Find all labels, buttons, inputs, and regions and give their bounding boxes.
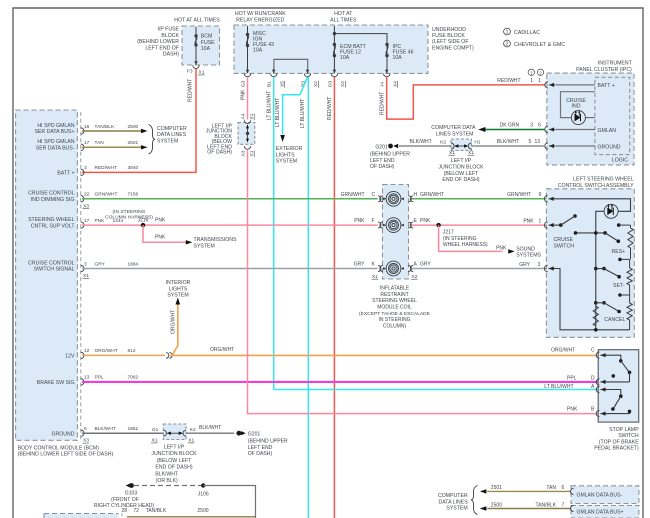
- switch RES+ arm: [574, 231, 620, 243]
- svg-text:SYSTEM: SYSTEM: [167, 293, 188, 299]
- svg-text:10A: 10A: [253, 48, 263, 54]
- svg-text:RED/WHT: RED/WHT: [327, 97, 333, 120]
- svg-text:GMLAN DATA BUS+: GMLAN DATA BUS+: [577, 510, 624, 516]
- svg-text:3: 3: [530, 122, 533, 128]
- svg-text:ALL TIMES: ALL TIMES: [330, 17, 357, 23]
- svg-text:G201: G201: [248, 431, 261, 437]
- svg-text:CANCEL: CANCEL: [604, 317, 625, 323]
- coil K-A row connectors: [354, 262, 432, 272]
- svg-text:(TOP OF BRAKE: (TOP OF BRAKE: [599, 439, 639, 445]
- svg-text:TRANSMISSIONS: TRANSMISSIONS: [194, 237, 237, 243]
- BCM pin 3 GRY 1884: [28, 260, 378, 279]
- connector J4/X4: [380, 70, 399, 88]
- svg-text:7: 7: [562, 502, 565, 508]
- junction J216 on PNK wire: [105, 209, 166, 227]
- svg-text:TAN/BLK: TAN/BLK: [536, 502, 557, 508]
- svg-text:PNK: PNK: [496, 245, 507, 251]
- arrows and brace to COMPUTER DATA LINES SYSTEM: [141, 125, 187, 155]
- svg-text:13: 13: [84, 375, 90, 381]
- svg-text:10A: 10A: [393, 55, 403, 61]
- svg-text:3840: 3840: [128, 165, 139, 171]
- connector B1/X5: [267, 70, 286, 88]
- BCM box: [16, 110, 78, 440]
- resistor RES+: [612, 223, 634, 259]
- svg-text:PNK: PNK: [95, 218, 106, 224]
- svg-text:IND DIMMING SIG: IND DIMMING SIG: [31, 197, 75, 203]
- svg-text:LOGIC: LOGIC: [612, 158, 628, 164]
- svg-text:C: C: [591, 348, 595, 354]
- bottom pin 28/72 TAN/BLK 2500: [122, 508, 256, 517]
- switch assembly pin 3: [544, 265, 555, 271]
- svg-text:J4: J4: [380, 82, 386, 87]
- svg-text:LEFT END: LEFT END: [248, 445, 273, 451]
- svg-text:SER DATA BUS-: SER DATA BUS-: [36, 146, 75, 152]
- svg-text:F3: F3: [187, 69, 193, 75]
- svg-text:PNK: PNK: [155, 217, 166, 223]
- header HOT AT ALL TIMES (I/P fuse block): [174, 17, 220, 23]
- svg-text:2501: 2501: [491, 485, 502, 491]
- svg-text:BATT +: BATT +: [57, 171, 74, 177]
- svg-text:STOP LAMP: STOP LAMP: [609, 427, 639, 433]
- svg-text:DATA LINES: DATA LINES: [157, 132, 187, 138]
- svg-text:D3: D3: [327, 81, 333, 87]
- wire PPL label near stop lamp pin D: [567, 375, 595, 381]
- svg-text:X4: X4: [392, 81, 398, 87]
- stop lamp switch pin C: [596, 352, 607, 358]
- fuse IPC FUSE 46 10A: [385, 34, 413, 73]
- wire LT BLU/WHT from B1 down to stop lamp row: [266, 77, 273, 390]
- svg-text:(FRONT OF: (FRONT OF: [111, 497, 139, 503]
- left steering wheel control switch assembly box: [546, 177, 634, 338]
- svg-text:BCM: BCM: [201, 34, 213, 40]
- svg-text:GRY: GRY: [354, 262, 365, 268]
- wire bus feeding B1 and P3 inside underhood box: [274, 59, 308, 73]
- stop lamp switch pin D: [596, 379, 607, 385]
- cruise on/off switch: [554, 214, 577, 249]
- junction block (left I/P) K2/H1: [440, 139, 481, 156]
- svg-text:LIGHTS: LIGHTS: [276, 152, 295, 158]
- BCM pin 5 BLK/WHT 1851: [51, 426, 163, 444]
- svg-text:CADILLAC: CADILLAC: [514, 30, 540, 36]
- svg-text:2: 2: [539, 70, 542, 76]
- junction J106: [198, 483, 209, 497]
- brace and label COMPUTER DATA LINES SYSTEM (bottom): [438, 486, 477, 515]
- svg-text:INSTRUMENT: INSTRUMENT: [598, 61, 633, 67]
- svg-text:DATA LINES: DATA LINES: [438, 499, 468, 505]
- svg-text:K2: K2: [440, 140, 446, 146]
- BCM pin 13 PPL 7062: [37, 375, 598, 386]
- wire PNK coil to switch assembly: [412, 218, 547, 225]
- svg-text:1: 1: [538, 78, 541, 84]
- svg-text:3: 3: [84, 165, 87, 171]
- svg-text:GROUND: GROUND: [598, 144, 621, 150]
- LED cruise switch indicator: [604, 204, 618, 218]
- GMLAN DATA BUS- box: [571, 486, 639, 504]
- svg-text:FUSE: FUSE: [201, 40, 215, 46]
- svg-text:LEFT I/P: LEFT I/P: [164, 445, 185, 451]
- switch SET- arm: [594, 267, 621, 279]
- svg-text:GMLAN: GMLAN: [598, 128, 617, 134]
- svg-text:B1: B1: [267, 81, 273, 87]
- underhood fuse block box: [234, 25, 474, 73]
- svg-text:COMPUTER: COMPUTER: [438, 493, 468, 499]
- svg-text:(EXCEPT TAHOE & ESCALADE: (EXCEPT TAHOE & ESCALADE: [359, 311, 431, 317]
- svg-text:BODY CONTROL MODULE (BCM): BODY CONTROL MODULE (BCM): [18, 445, 100, 451]
- svg-text:COMPUTER DATA: COMPUTER DATA: [431, 125, 476, 131]
- connector G3 below underhood box: [241, 70, 251, 87]
- svg-text:17: 17: [84, 218, 90, 224]
- wire LT BLU/WHT to stop lamp pin A: [274, 384, 599, 390]
- svg-text:(OR BLK): (OR BLK): [156, 478, 178, 484]
- svg-text:2500: 2500: [197, 508, 208, 514]
- stop lamp switch upper contact set: [605, 355, 631, 382]
- IPC pin GMLAN: [500, 122, 617, 134]
- BCM pin 16 TAN/BLK 2500: [34, 123, 141, 135]
- wire LT BLU/WHT branch to exterior lights: [275, 77, 307, 135]
- svg-text:2500: 2500: [128, 124, 139, 130]
- BCM pin 22 GRN/WHT 7156: [28, 191, 378, 210]
- I/P fuse block box: [137, 26, 219, 65]
- svg-text:ENGINE COMPT): ENGINE COMPT): [432, 45, 474, 51]
- svg-text:LEFT END OF: LEFT END OF: [145, 45, 179, 51]
- BCM pin 17 TAN 2501: [36, 139, 141, 151]
- svg-text:GRY: GRY: [95, 261, 106, 267]
- svg-text:SYSTEM: SYSTEM: [446, 506, 467, 512]
- svg-text:X1: X1: [372, 274, 378, 280]
- svg-text:RESTRAINT: RESTRAINT: [380, 292, 408, 298]
- svg-text:LT BLU/WHT: LT BLU/WHT: [266, 91, 272, 120]
- svg-text:GRY: GRY: [519, 262, 530, 268]
- svg-text:CRUISE CONTROL: CRUISE CONTROL: [28, 191, 75, 197]
- ground G103: [94, 483, 154, 509]
- svg-text:PNK: PNK: [420, 218, 431, 224]
- svg-text:BLK/WHT: BLK/WHT: [95, 426, 116, 432]
- svg-text:STEERING WHEEL: STEERING WHEEL: [28, 217, 75, 223]
- wire GRY coil to switch assembly: [412, 262, 547, 269]
- LED cruise indicator: [571, 110, 585, 124]
- svg-text:1: 1: [506, 30, 509, 36]
- stop lamp switch pin B: [596, 410, 607, 416]
- svg-text:END OF DASH): END OF DASH): [442, 177, 479, 183]
- svg-text:HOT AT: HOT AT: [334, 11, 353, 17]
- svg-text:FUSE BLOCK: FUSE BLOCK: [432, 33, 465, 39]
- svg-text:RES+: RES+: [612, 249, 626, 255]
- switch assembly pin 1: [544, 222, 555, 228]
- svg-text:13: 13: [535, 139, 541, 145]
- svg-text:J106: J106: [198, 491, 209, 497]
- svg-text:GRN/WHT: GRN/WHT: [420, 192, 444, 198]
- svg-text:CRUISE: CRUISE: [554, 237, 574, 243]
- svg-text:SET-: SET-: [613, 283, 625, 289]
- svg-text:IN STEERING: IN STEERING: [379, 317, 411, 323]
- BCM pin 17 PNK 1444: [28, 217, 378, 229]
- svg-text:SYSTEMS: SYSTEMS: [516, 253, 541, 259]
- svg-text:TAN/BLK: TAN/BLK: [95, 124, 115, 130]
- svg-text:TAN: TAN: [95, 140, 105, 146]
- svg-text:INFLATABLE: INFLATABLE: [380, 286, 410, 292]
- wire PNK branch to transmissions system: [143, 225, 237, 249]
- svg-text:2501: 2501: [128, 140, 139, 146]
- svg-text:ORG/WHT: ORG/WHT: [95, 348, 118, 354]
- wire LT BLU/WHT from P3 down off page: [300, 77, 308, 518]
- inflatable restraint steering wheel module coil box: [359, 185, 431, 330]
- svg-text:G3: G3: [241, 80, 247, 87]
- wire ORG/WHT branch to interior lights: [170, 305, 177, 356]
- fuse BCM FUSE 10A: [194, 27, 215, 64]
- coil C-H row connectors: [341, 192, 444, 202]
- svg-text:OF DASH): OF DASH): [248, 451, 273, 457]
- svg-text:SOUND: SOUND: [516, 246, 535, 252]
- svg-text:IND: IND: [572, 103, 581, 109]
- svg-text:F: F: [372, 218, 375, 224]
- svg-text:INTERIOR: INTERIOR: [166, 280, 191, 286]
- IPC logic box: [595, 77, 630, 163]
- ground G201 (lower): [236, 431, 288, 457]
- GMLAN DATA BUS+ box: [571, 506, 639, 518]
- wire PNK branch to sound systems: [439, 225, 542, 259]
- svg-text:HOT W/ RUN/CRANK: HOT W/ RUN/CRANK: [235, 11, 286, 17]
- svg-text:X2: X2: [412, 274, 418, 280]
- junction block (left I/P) A4/A3: [238, 113, 255, 157]
- svg-text:CONTROL SWITCH ASSEMBLY: CONTROL SWITCH ASSEMBLY: [558, 183, 634, 189]
- svg-text:CNTRL SUP VOLT: CNTRL SUP VOLT: [31, 223, 76, 229]
- svg-text:COLUMN HARNESS): COLUMN HARNESS): [105, 214, 153, 220]
- svg-text:1884: 1884: [128, 261, 139, 267]
- connector P3/X2: [301, 70, 320, 88]
- wire GRN/WHT coil to switch assembly: [412, 192, 547, 199]
- stop lamp switch pin A: [596, 386, 607, 392]
- coil connector labels X1/X2: [372, 274, 418, 280]
- stop lamp switch box: [594, 350, 639, 452]
- connector D3/X2: [327, 70, 346, 88]
- coil element C/H: [383, 191, 404, 206]
- svg-text:HI SPD GMLAN: HI SPD GMLAN: [37, 123, 74, 129]
- svg-text:GRN/WHT: GRN/WHT: [95, 192, 118, 198]
- svg-text:DK GRN: DK GRN: [500, 122, 520, 128]
- svg-text:PPL: PPL: [567, 375, 577, 381]
- svg-text:7062: 7062: [128, 375, 139, 381]
- svg-text:D: D: [591, 375, 595, 381]
- resistor CANCEL chain: [604, 293, 632, 330]
- svg-text:22: 22: [84, 192, 90, 198]
- svg-text:CRUISE CONTROL: CRUISE CONTROL: [28, 260, 75, 266]
- coil element F/E: [383, 218, 404, 233]
- wire ORG/WHT to stop lamp switch pin C: [170, 347, 598, 355]
- svg-text:G201: G201: [375, 144, 388, 150]
- svg-text:LINES SYSTEM: LINES SYSTEM: [436, 131, 474, 137]
- svg-text:BATT +: BATT +: [598, 83, 615, 89]
- junction block K2/H1 label: [438, 158, 484, 183]
- svg-text:H1: H1: [474, 140, 480, 146]
- svg-text:SYSTEM: SYSTEM: [194, 244, 215, 250]
- resistor on common leg: [593, 306, 598, 332]
- switch assembly internal wiring: [554, 199, 631, 330]
- junction block G1/K2 label: [151, 445, 197, 485]
- resistor SET-: [613, 258, 632, 295]
- svg-text:SER DATA BUS+: SER DATA BUS+: [34, 129, 74, 135]
- svg-text:RED/WHT: RED/WHT: [379, 92, 385, 115]
- svg-text:GRY: GRY: [420, 262, 431, 268]
- svg-text:812: 812: [128, 348, 136, 354]
- svg-text:6: 6: [538, 122, 541, 128]
- svg-text:12: 12: [84, 348, 90, 354]
- svg-text:9: 9: [539, 192, 542, 198]
- svg-text:5: 5: [84, 426, 87, 432]
- svg-text:1: 1: [530, 70, 533, 76]
- wire PNK to stop lamp pin B: [248, 150, 599, 413]
- svg-text:LEFT I/P: LEFT I/P: [451, 158, 472, 164]
- svg-text:I/P FUSE: I/P FUSE: [157, 27, 179, 33]
- switch assembly pin 9: [544, 196, 555, 202]
- svg-text:UNDERHOOD: UNDERHOOD: [432, 27, 466, 33]
- svg-text:EXTERIOR: EXTERIOR: [276, 146, 303, 152]
- wire BLK/WHT junction block to G201 (lower): [186, 425, 234, 433]
- svg-text:2: 2: [506, 42, 509, 48]
- svg-text:1: 1: [539, 218, 542, 224]
- svg-text:SYSTEM: SYSTEM: [157, 138, 178, 144]
- svg-text:BLK/WHT: BLK/WHT: [199, 425, 221, 431]
- connector F3/X1 below I/P fuse block: [187, 61, 205, 75]
- legend circled 1 CADILLAC: [504, 28, 540, 36]
- svg-text:PANEL CLUSTER (IPC): PANEL CLUSTER (IPC): [576, 67, 632, 73]
- svg-text:HI SPD GMLAN: HI SPD GMLAN: [37, 139, 74, 145]
- svg-text:(BEHIND LOWER: (BEHIND LOWER: [137, 39, 179, 45]
- svg-text:5: 5: [529, 139, 532, 145]
- svg-text:10A: 10A: [201, 46, 211, 52]
- svg-text:TAN/BLK: TAN/BLK: [146, 508, 167, 514]
- svg-text:END OF DASH): END OF DASH): [155, 464, 192, 470]
- svg-text:COMPUTER: COMPUTER: [157, 126, 187, 132]
- svg-text:OF DASH): OF DASH): [370, 164, 395, 170]
- svg-text:RED/WHT: RED/WHT: [95, 165, 117, 171]
- arrow to EXTERIOR LIGHTS SYSTEM: [276, 135, 303, 165]
- wire bus feeding ECM BATT and IPC fuses: [333, 26, 387, 40]
- svg-text:LT BLU/WHT: LT BLU/WHT: [300, 99, 306, 128]
- svg-text:SYSTEM: SYSTEM: [276, 159, 297, 165]
- svg-text:PNK: PNK: [155, 235, 166, 241]
- header HOT AT ALL TIMES (underhood): [330, 11, 357, 23]
- svg-text:(BELOW LEFT: (BELOW LEFT: [444, 171, 479, 177]
- IPC pin GROUND: [497, 139, 621, 150]
- svg-text:H: H: [414, 192, 418, 198]
- svg-text:WHEEL HARNESS): WHEEL HARNESS): [443, 242, 488, 248]
- svg-text:10A: 10A: [340, 55, 350, 61]
- svg-text:BLK/WHT: BLK/WHT: [410, 139, 432, 145]
- stop lamp switch lower contact set: [605, 390, 631, 414]
- wire DK GRN to computer data lines system: [431, 125, 545, 137]
- svg-text:A4: A4: [241, 113, 247, 119]
- bottom module box (partial): [44, 514, 122, 518]
- svg-text:PPL: PPL: [95, 375, 104, 381]
- svg-text:LEFT STEERING WHEEL: LEFT STEERING WHEEL: [573, 177, 634, 183]
- svg-text:ORG/WHT: ORG/WHT: [551, 348, 575, 354]
- svg-text:3: 3: [538, 262, 541, 268]
- svg-text:STEERING WHEEL: STEERING WHEEL: [372, 298, 417, 304]
- svg-text:RED/WHT: RED/WHT: [497, 78, 520, 84]
- svg-text:(LEFT SIDE OF: (LEFT SIDE OF: [432, 39, 469, 45]
- svg-text:PNK: PNK: [354, 218, 365, 224]
- wire RED/WHT from F3 to BCM BATT+: [82, 69, 196, 173]
- svg-text:(BEHIND UPPER: (BEHIND UPPER: [248, 439, 288, 445]
- svg-text:SWITCH SIGNAL: SWITCH SIGNAL: [34, 267, 75, 273]
- svg-text:28: 28: [122, 508, 128, 514]
- svg-text:GROUND: GROUND: [51, 431, 74, 437]
- svg-text:RED/WHT: RED/WHT: [188, 79, 194, 102]
- svg-text:HOT AT ALL TIMES: HOT AT ALL TIMES: [174, 17, 220, 23]
- fuse ECM BATT FUSE 12 10A: [333, 34, 367, 73]
- svg-text:BLOCK: BLOCK: [161, 33, 179, 39]
- wire BLK/WHT (OR BLK) dashed G103 to J106: [134, 485, 203, 487]
- svg-text:GRN/WHT: GRN/WHT: [341, 192, 365, 198]
- fuse MISC IGN FUSE 43 10A: [246, 26, 274, 73]
- wire TAN/BLK 2500 GMLAN data bus+: [480, 502, 571, 510]
- svg-text:6: 6: [562, 485, 565, 491]
- svg-text:GMLAN DATA BUS-: GMLAN DATA BUS-: [577, 492, 623, 498]
- svg-text:PNK: PNK: [241, 89, 247, 100]
- svg-text:LEFT END: LEFT END: [370, 158, 395, 164]
- svg-text:17: 17: [84, 140, 90, 146]
- svg-text:DASH): DASH): [163, 52, 179, 58]
- BCM label: [18, 445, 114, 457]
- svg-text:2500: 2500: [491, 502, 502, 508]
- IPC cruise indicator loop wire: [561, 92, 595, 118]
- coil element K/A: [383, 261, 404, 276]
- svg-text:3: 3: [84, 261, 87, 267]
- svg-text:MODULE COIL: MODULE COIL: [377, 305, 412, 311]
- wire BLK/WHT junction block to G201: [399, 139, 451, 146]
- svg-text:SWITCH: SWITCH: [554, 243, 575, 249]
- svg-text:BLK/WHT: BLK/WHT: [497, 139, 519, 145]
- wire RED/WHT from J4 to IPC BATT+: [379, 77, 545, 119]
- svg-text:JUNCTION BLOCK: JUNCTION BLOCK: [438, 165, 484, 171]
- header HOT W/ RUN/CRANK RELAY ENERGIZED: [235, 11, 286, 23]
- svg-text:72: 72: [133, 508, 139, 514]
- coil F-E row connectors: [354, 218, 431, 228]
- svg-text:SWITCH: SWITCH: [618, 433, 639, 439]
- junction block G1/K2: [151, 424, 196, 444]
- inline connector on ORG/WHT wire: [166, 353, 172, 359]
- svg-text:G103: G103: [125, 491, 138, 497]
- wire TAN 2501 GMLAN data bus-: [480, 485, 571, 493]
- svg-text:LIGHTS: LIGHTS: [169, 286, 188, 292]
- svg-text:JUNCTION BLOCK: JUNCTION BLOCK: [151, 451, 197, 457]
- IPC pin BATT+: [497, 69, 614, 89]
- svg-text:COLUMN): COLUMN): [383, 323, 407, 329]
- svg-text:TAN: TAN: [546, 485, 556, 491]
- svg-text:CHEVROLET & GMC: CHEVROLET & GMC: [514, 42, 565, 48]
- svg-text:1: 1: [530, 78, 533, 84]
- svg-text:(IN STEERING: (IN STEERING: [113, 209, 146, 215]
- svg-text:GRN/WHT: GRN/WHT: [507, 192, 531, 198]
- switch CANCEL arm: [594, 301, 621, 313]
- svg-text:ORG/WHT: ORG/WHT: [210, 347, 234, 353]
- ground G201 (upper): [370, 144, 410, 171]
- svg-text:(IN STEERING: (IN STEERING: [443, 236, 477, 242]
- svg-text:C: C: [372, 192, 376, 198]
- svg-text:G1: G1: [152, 427, 159, 433]
- svg-text:J217: J217: [443, 230, 454, 236]
- svg-text:PEDAL BRACKET): PEDAL BRACKET): [594, 446, 639, 452]
- svg-text:LT BLU/WHT: LT BLU/WHT: [275, 98, 281, 127]
- svg-text:K2: K2: [190, 427, 196, 433]
- svg-text:PNK: PNK: [523, 218, 534, 224]
- arrow to INTERIOR LIGHTS SYSTEM: [166, 280, 191, 305]
- svg-text:A3: A3: [241, 150, 247, 156]
- svg-text:7156: 7156: [128, 192, 139, 198]
- svg-text:1851: 1851: [128, 426, 139, 432]
- legend circled 2 CHEVROLET & GMC: [504, 40, 566, 48]
- wire BLK/WHT from IPC ground to junction block: [472, 145, 546, 147]
